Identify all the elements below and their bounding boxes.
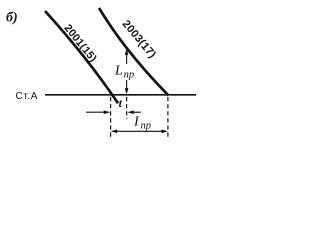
vertical arrow Lpr upper segment (125, 49, 129, 65)
Ipr dimension double arrow (111, 130, 168, 134)
train line 2001 (45, 11, 118, 103)
train line 2003 (99, 8, 169, 96)
svg-text:б): б) (6, 11, 18, 26)
dashed drop line at first train crossing (110, 97, 112, 140)
t dimension right arrow (127, 110, 141, 114)
svg-text:Ст.А: Ст.А (16, 91, 39, 102)
vertical arrow Lpr lower segment (125, 80, 129, 95)
dashed drop line at L arrow foot (126, 97, 128, 119)
station axis line (45, 94, 196, 96)
dashed drop line at second train crossing (167, 97, 169, 140)
t dimension left arrow (86, 110, 110, 114)
